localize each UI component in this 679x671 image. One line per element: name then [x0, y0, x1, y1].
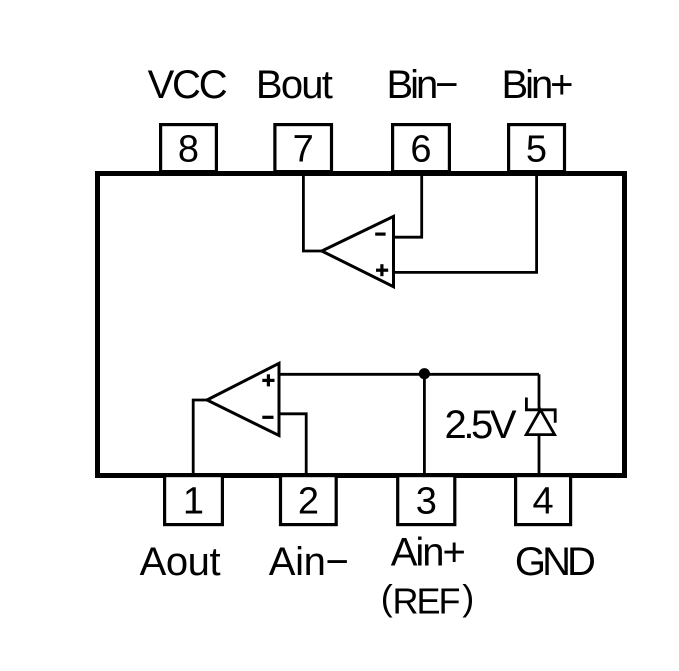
svg-text:1: 1 — [183, 480, 204, 522]
svg-text:VCC: VCC — [148, 63, 228, 107]
svg-text:3: 3 — [416, 480, 437, 522]
svg-text:4: 4 — [533, 480, 554, 522]
svg-text:8: 8 — [178, 128, 199, 170]
svg-text:(: ( — [381, 577, 393, 618]
svg-text:5: 5 — [526, 128, 547, 170]
svg-text:6: 6 — [410, 128, 431, 170]
svg-text:Bout: Bout — [256, 63, 333, 107]
svg-text:REF: REF — [393, 581, 461, 622]
svg-text:Bin−: Bin− — [387, 63, 459, 107]
svg-text:Ain−: Ain− — [269, 540, 349, 584]
svg-text:Ain+: Ain+ — [391, 530, 466, 574]
svg-text:): ) — [462, 577, 474, 618]
svg-text:GND: GND — [515, 540, 596, 584]
svg-text:Bin+: Bin+ — [502, 63, 574, 107]
svg-text:2.5V: 2.5V — [445, 403, 517, 447]
svg-text:2: 2 — [298, 480, 319, 522]
svg-text:Aout: Aout — [140, 540, 221, 584]
svg-text:7: 7 — [293, 128, 314, 170]
